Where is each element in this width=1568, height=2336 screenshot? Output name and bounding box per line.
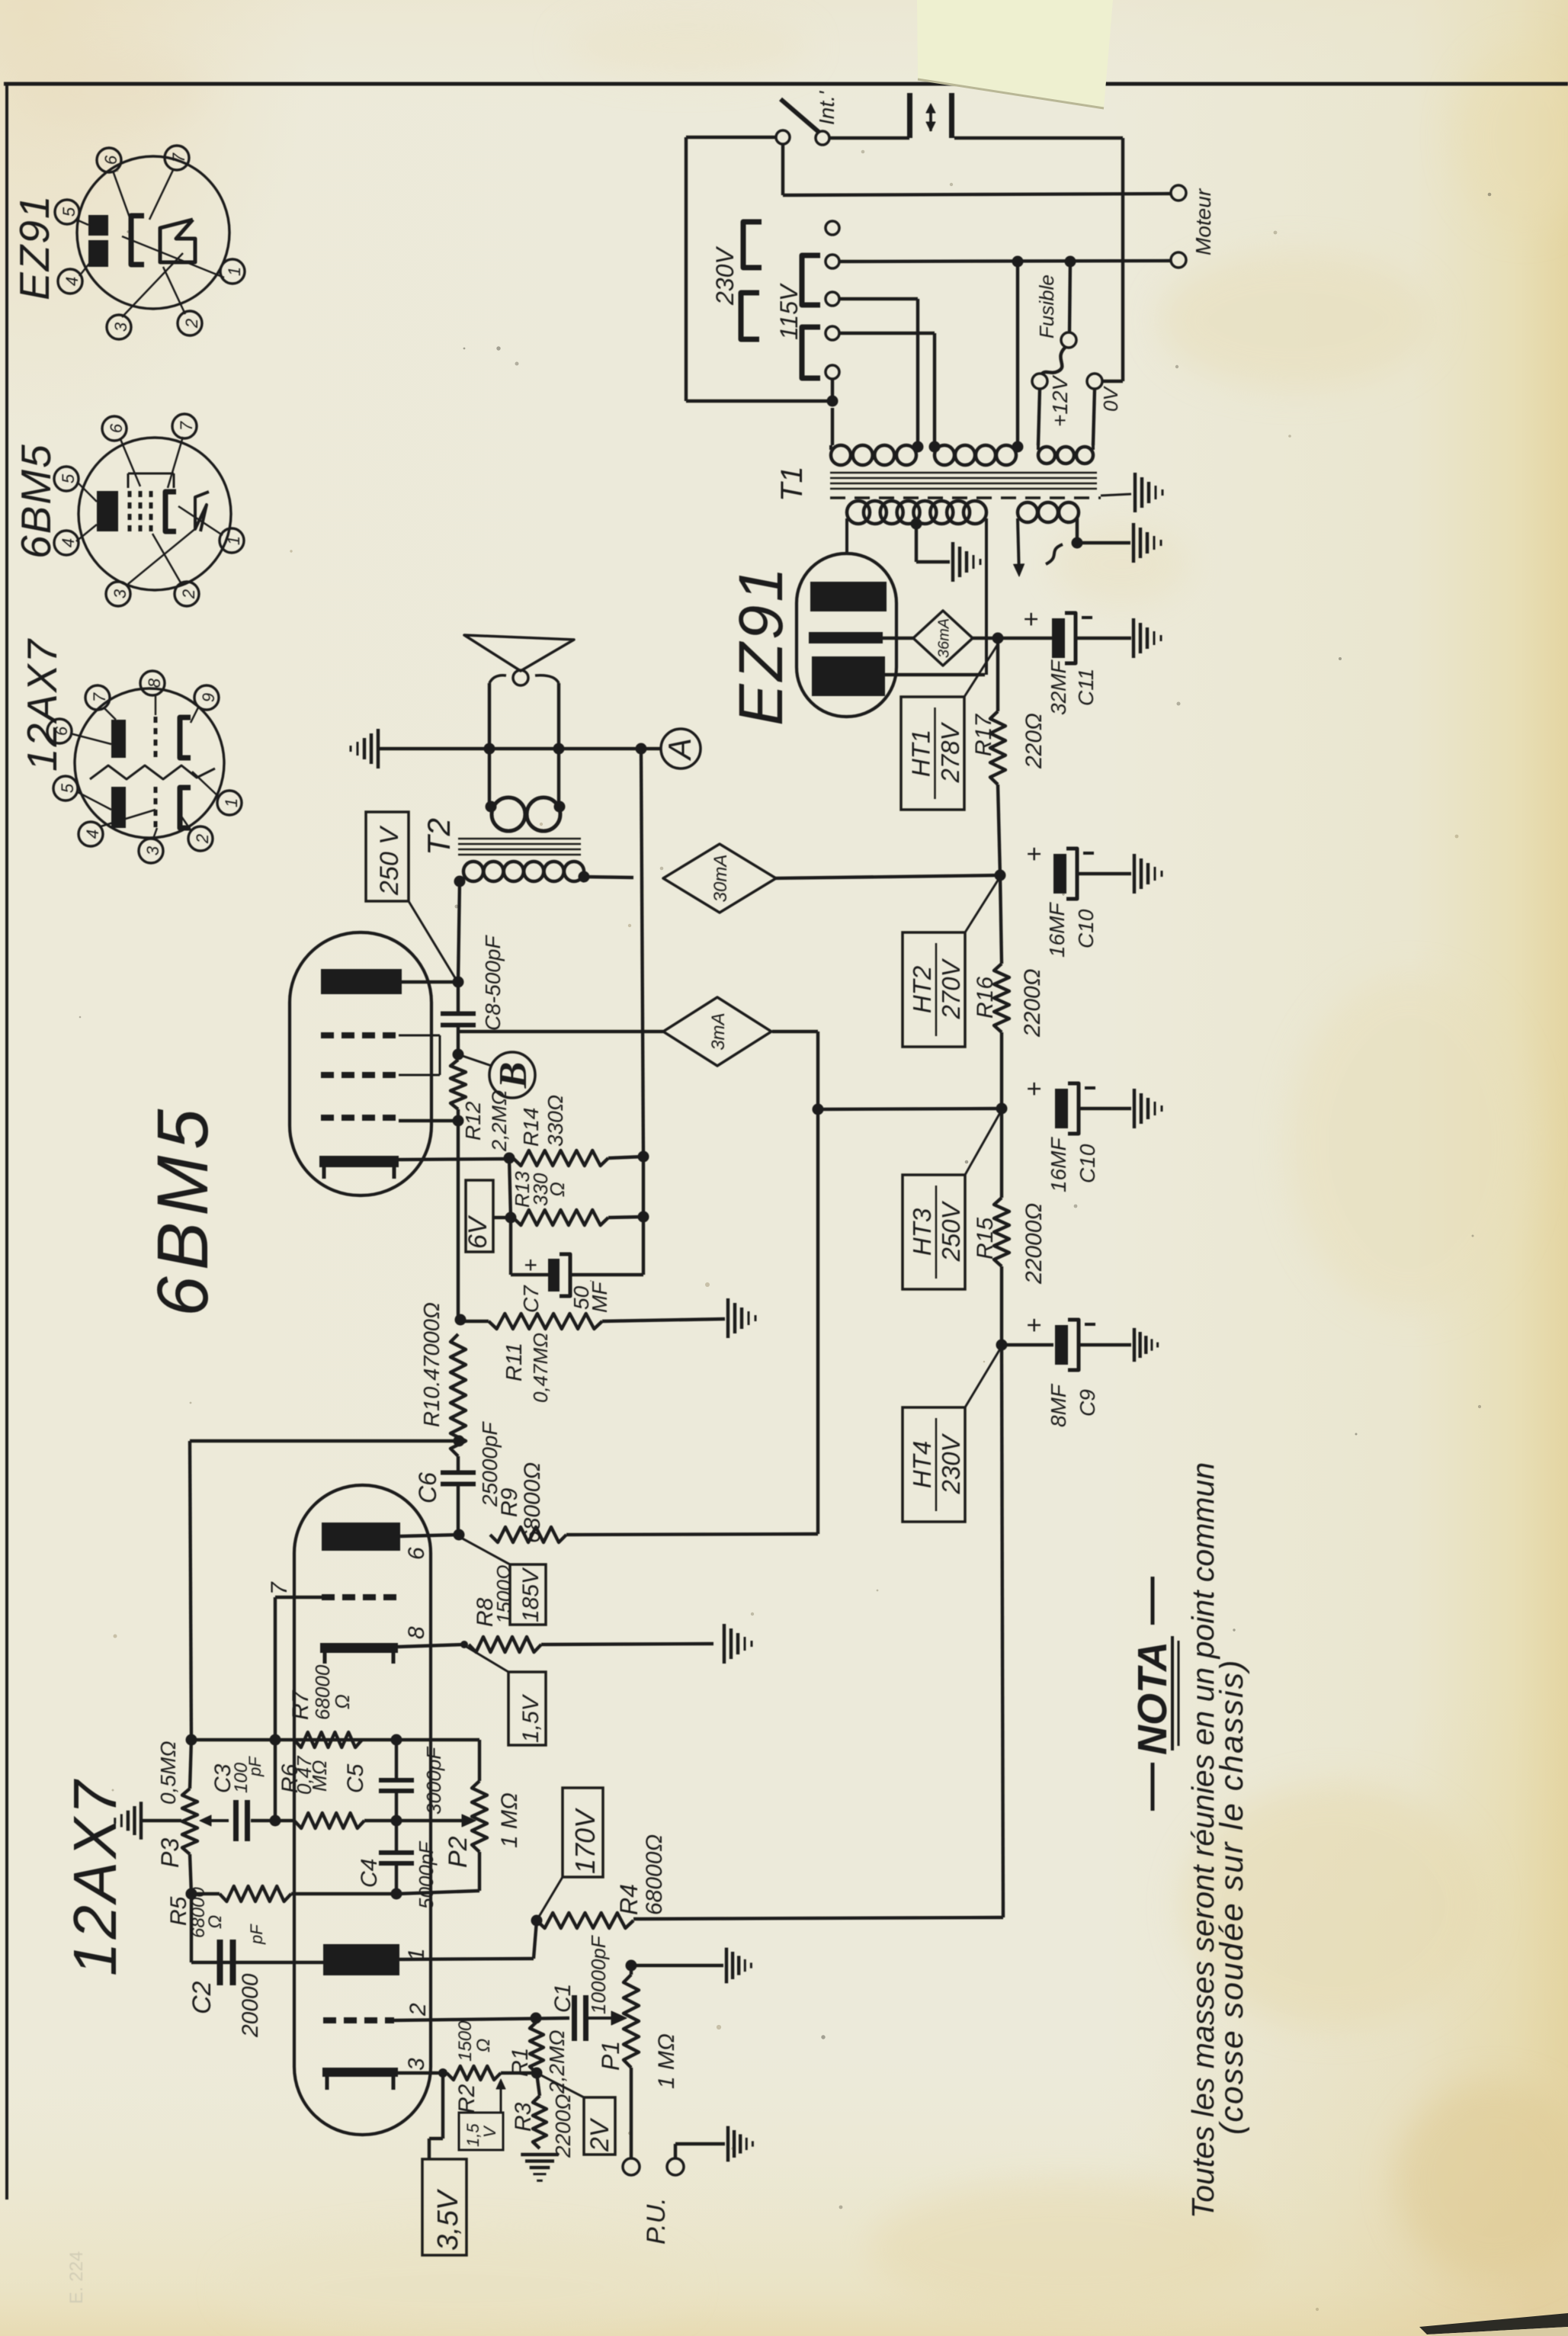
svg-text:HT3: HT3 (908, 1208, 936, 1256)
svg-text:P.U.: P.U. (642, 2197, 671, 2245)
svg-text:3,5V: 3,5V (432, 2188, 464, 2251)
svg-text:5: 5 (58, 783, 77, 793)
svg-text:+: + (1020, 1317, 1049, 1333)
svg-text:6: 6 (404, 1547, 429, 1560)
svg-text:3mA: 3mA (708, 1012, 729, 1050)
svg-text:278V: 278V (936, 721, 964, 783)
svg-text:V: V (480, 2125, 499, 2138)
svg-text:3: 3 (111, 322, 130, 332)
svg-text:1: 1 (224, 536, 243, 545)
svg-text:T1: T1 (775, 466, 809, 502)
svg-text:7: 7 (267, 1581, 292, 1595)
svg-text:68000Ω: 68000Ω (520, 1462, 545, 1543)
svg-text:R10.47000Ω: R10.47000Ω (420, 1302, 444, 1427)
svg-text:12AX7: 12AX7 (18, 637, 66, 772)
svg-text:R7: R7 (288, 1689, 313, 1720)
svg-text:7: 7 (177, 421, 196, 431)
svg-text:T2: T2 (421, 818, 457, 855)
svg-text:P1: P1 (597, 2041, 624, 2071)
svg-text:1 MΩ: 1 MΩ (497, 1792, 522, 1848)
svg-text:6BM5: 6BM5 (12, 443, 59, 559)
svg-text:3: 3 (404, 2058, 429, 2071)
svg-text:C10: C10 (1074, 909, 1098, 948)
svg-text:R15: R15 (973, 1218, 998, 1259)
svg-text:R3: R3 (511, 2102, 536, 2132)
svg-text:2: 2 (179, 589, 198, 599)
svg-text:8: 8 (145, 678, 164, 688)
svg-text:HT4: HT4 (908, 1441, 936, 1488)
svg-text:R9: R9 (497, 1487, 522, 1517)
svg-text:7: 7 (90, 692, 109, 702)
svg-text:16MF: 16MF (1045, 902, 1069, 958)
svg-text:12AX7: 12AX7 (61, 1778, 129, 1976)
svg-text:R1: R1 (508, 2048, 533, 2077)
svg-text:4: 4 (59, 538, 78, 547)
svg-text:C1: C1 (550, 1984, 576, 2013)
svg-text:115V: 115V (775, 283, 803, 340)
svg-text:2: 2 (193, 834, 212, 844)
svg-text:0V: 0V (1099, 386, 1122, 412)
svg-text:22000Ω: 22000Ω (1021, 1203, 1047, 1285)
svg-text:270V: 270V (937, 958, 965, 1019)
svg-text:Ω: Ω (546, 1182, 569, 1197)
svg-text:C7: C7 (519, 1285, 543, 1313)
svg-text:250 V: 250 V (375, 825, 404, 896)
svg-text:Moteur: Moteur (1191, 188, 1215, 255)
svg-text:2200Ω: 2200Ω (1020, 968, 1045, 1038)
svg-text:pF: pF (247, 1924, 266, 1945)
svg-text:+: + (518, 1258, 544, 1272)
svg-text:330Ω: 330Ω (544, 1095, 567, 1147)
svg-text:C6: C6 (414, 1472, 441, 1503)
svg-text:Fusible: Fusible (1035, 274, 1058, 339)
svg-text:1: 1 (222, 798, 241, 807)
svg-text:C8-500pF: C8-500pF (481, 935, 505, 1031)
svg-text:R4: R4 (615, 1884, 643, 1915)
svg-text:2V: 2V (585, 2117, 614, 2152)
svg-text:+: + (1020, 1081, 1049, 1096)
svg-text:220Ω: 220Ω (1021, 713, 1047, 769)
svg-text:1500: 1500 (455, 2020, 476, 2062)
svg-text:1,5V: 1,5V (518, 1693, 544, 1743)
svg-text:230V: 230V (937, 1433, 965, 1494)
svg-text:1: 1 (404, 1948, 429, 1961)
svg-text:R11: R11 (502, 1343, 527, 1381)
svg-text:MΩ: MΩ (308, 1760, 331, 1792)
svg-text:3: 3 (143, 846, 162, 855)
svg-text:+12V: +12V (1048, 375, 1072, 427)
svg-text:20000: 20000 (238, 1973, 263, 2038)
svg-text:4: 4 (83, 829, 102, 839)
svg-text:10000pF: 10000pF (587, 1934, 610, 2014)
svg-text:MF: MF (588, 1281, 611, 1313)
svg-text:C11: C11 (1074, 669, 1098, 706)
svg-text:EZ91: EZ91 (726, 564, 796, 726)
svg-text:2200Ω: 2200Ω (551, 2094, 575, 2158)
svg-text:EZ91: EZ91 (11, 194, 58, 300)
svg-text:R16: R16 (973, 977, 998, 1019)
svg-text:230V: 230V (711, 246, 739, 306)
svg-text:1: 1 (225, 267, 244, 276)
svg-text:36mA: 36mA (936, 618, 953, 658)
svg-text:8: 8 (404, 1626, 429, 1639)
svg-text:1 MΩ: 1 MΩ (654, 2033, 679, 2089)
svg-text:R17: R17 (971, 714, 996, 756)
svg-text:Ω: Ω (473, 2039, 494, 2052)
svg-text:Int.': Int.' (815, 90, 839, 125)
svg-text:6V: 6V (463, 1215, 492, 1249)
svg-text:P2: P2 (444, 1836, 473, 1868)
svg-text:R2: R2 (454, 2084, 479, 2113)
svg-text:C9: C9 (1076, 1389, 1099, 1417)
svg-text:E. 224: E. 224 (66, 2251, 87, 2304)
svg-text:68000Ω: 68000Ω (642, 1834, 667, 1915)
svg-text:A: A (662, 738, 697, 762)
svg-text:250V: 250V (937, 1200, 965, 1262)
svg-text:0,47MΩ: 0,47MΩ (529, 1333, 552, 1403)
svg-text:HT2: HT2 (908, 966, 936, 1013)
svg-text:5: 5 (59, 473, 78, 483)
svg-text:C10: C10 (1076, 1144, 1099, 1183)
svg-text:2: 2 (406, 2003, 431, 2017)
svg-text:pF: pF (245, 1756, 265, 1777)
svg-text:2,2MΩ: 2,2MΩ (488, 1089, 511, 1152)
svg-text:32MF: 32MF (1047, 659, 1070, 715)
svg-text:5000pF: 5000pF (415, 1840, 438, 1909)
svg-text:R12: R12 (461, 1101, 485, 1141)
svg-text:C5: C5 (343, 1763, 368, 1793)
svg-text:6: 6 (107, 423, 126, 433)
svg-text:30mA: 30mA (710, 855, 731, 903)
svg-text:Ω: Ω (205, 1915, 226, 1929)
svg-text:68000: 68000 (311, 1664, 334, 1720)
svg-text:16MF: 16MF (1047, 1137, 1070, 1192)
svg-text:6: 6 (101, 155, 120, 165)
svg-text:NOTA: NOTA (1130, 1641, 1175, 1755)
svg-text:+: + (1017, 611, 1046, 627)
svg-text:3: 3 (111, 589, 130, 598)
svg-text:C4: C4 (357, 1859, 382, 1888)
svg-text:9: 9 (199, 693, 218, 702)
svg-text:6BM5: 6BM5 (143, 1103, 223, 1317)
svg-text:Ω: Ω (331, 1694, 354, 1709)
svg-text:170V: 170V (569, 1808, 601, 1874)
svg-text:1500Ω: 1500Ω (492, 1564, 515, 1624)
svg-text:2: 2 (182, 319, 201, 329)
svg-text:0,5MΩ: 0,5MΩ (156, 1741, 180, 1805)
svg-text:R14: R14 (519, 1108, 543, 1147)
svg-text:P3: P3 (156, 1838, 184, 1868)
svg-text:185V: 185V (518, 1567, 544, 1622)
svg-text:C2: C2 (188, 1981, 216, 2014)
svg-text:5: 5 (59, 207, 79, 217)
svg-text:3000pF: 3000pF (422, 1746, 445, 1815)
svg-text:+: + (1020, 846, 1049, 862)
svg-text:HT1: HT1 (907, 730, 935, 777)
svg-text:4: 4 (63, 277, 82, 286)
svg-text:B: B (492, 1062, 535, 1089)
svg-text:(cosse soudée sur le chassis): (cosse soudée sur le chassis) (1214, 1659, 1250, 2135)
svg-text:8MF: 8MF (1047, 1383, 1070, 1427)
svg-text:7: 7 (169, 152, 188, 162)
